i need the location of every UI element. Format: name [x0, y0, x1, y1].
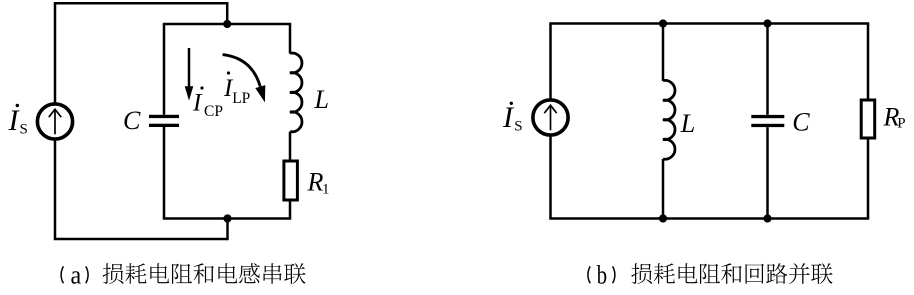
capacitor C (b) — [751, 115, 784, 127]
svg-text:b: b — [597, 260, 607, 290]
svg-text:C: C — [123, 106, 141, 135]
current arrow ILP curved (a) — [223, 55, 266, 103]
inductor L (a) — [290, 53, 302, 132]
wire capacitor top lead (b) — [766, 24, 769, 115]
wire capacitor top lead (a) — [163, 24, 166, 115]
wire outer right stub top (a) — [226, 2, 229, 24]
svg-text:S: S — [514, 119, 522, 135]
svg-text:R: R — [307, 168, 324, 197]
label R1 (a) — [307, 168, 330, 198]
wire left lead above source (a) — [54, 3, 57, 104]
label ICP (a) — [192, 86, 223, 120]
wire top rail (b) — [549, 22, 869, 25]
svg-text:L: L — [314, 85, 329, 114]
wire inductor top lead (a) — [289, 24, 292, 54]
wire resistor top lead (a) — [289, 132, 292, 162]
current arrow ICP (a) — [185, 48, 194, 101]
wire outer bottom (a) — [54, 238, 228, 241]
svg-text:a: a — [71, 260, 82, 290]
resistor RP (b) — [861, 100, 875, 138]
wire inner top rail (a) — [163, 23, 291, 26]
svg-text:L: L — [680, 109, 695, 138]
node top junction (a) — [223, 20, 231, 28]
svg-text:1: 1 — [322, 181, 330, 197]
label ILP (a) — [223, 71, 250, 107]
wire left lead below source (b) — [549, 135, 552, 218]
wire capacitor bottom lead (a) — [163, 127, 166, 219]
wire left lead above source (b) — [549, 24, 552, 100]
caption (a) — [61, 260, 305, 290]
wire outer top (a) — [54, 2, 227, 5]
wire capacitor bottom lead (b) — [766, 127, 769, 218]
wire resistor top lead (b) — [867, 24, 870, 102]
svg-text:I: I — [192, 90, 203, 117]
wire outer right stub bottom (a) — [226, 219, 229, 241]
wire resistor bottom lead (b) — [867, 138, 870, 219]
wire bottom rail (b) — [549, 217, 869, 220]
svg-text:C: C — [792, 107, 810, 136]
wire left lead below source (a) — [54, 139, 57, 239]
wire inductor top lead (b) — [662, 24, 665, 82]
wire inductor bottom lead (b) — [662, 159, 665, 219]
svg-text:LP: LP — [232, 90, 250, 107]
svg-text:S: S — [20, 122, 28, 138]
caption (b) — [588, 260, 833, 290]
label IS (a) — [8, 104, 28, 138]
label RP (b) — [883, 102, 906, 131]
resistor R1 (a) — [284, 161, 298, 200]
node C top (b) — [763, 19, 771, 27]
inductor L (b) — [663, 80, 675, 159]
svg-text:CP: CP — [204, 103, 223, 120]
node C bottom (b) — [763, 214, 771, 222]
node L top (b) — [659, 19, 667, 27]
node L bottom (b) — [659, 214, 667, 222]
capacitor C (a) — [149, 115, 179, 127]
label IS (b) — [502, 101, 523, 135]
svg-text:I: I — [502, 101, 515, 134]
node bottom junction (a) — [223, 214, 231, 222]
current source IS (a) — [37, 104, 72, 139]
current source IS (b) — [533, 100, 568, 135]
wire inner bottom rail (a) — [163, 217, 291, 220]
svg-text:P: P — [897, 116, 905, 132]
wire resistor bottom lead (a) — [289, 200, 292, 219]
